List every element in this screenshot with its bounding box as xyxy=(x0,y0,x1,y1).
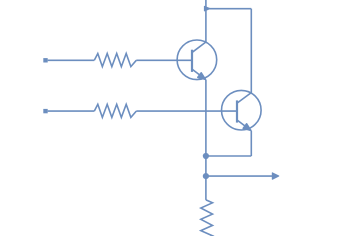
arrow output xyxy=(272,173,279,180)
transistor Q2 xyxy=(222,90,262,130)
wire Q1 emitter down main rail xyxy=(205,80,207,200)
resistor R1 xyxy=(94,54,136,67)
wire Q2 emitter down xyxy=(250,131,252,156)
junction dot B xyxy=(203,173,209,179)
resistor R2 xyxy=(94,104,136,117)
input terminal J2 xyxy=(43,109,47,113)
resistor R3 xyxy=(201,200,213,240)
input terminal J1 xyxy=(43,58,47,62)
wire Q1 collector rail xyxy=(205,0,207,42)
junction dot A xyxy=(203,153,209,159)
wire J1 to R1 xyxy=(48,59,95,61)
wire Q2 emitter to rail xyxy=(206,155,251,157)
arrow on top bus xyxy=(204,6,210,11)
wire R2 to Q2 base xyxy=(136,110,237,112)
wire top bus xyxy=(206,8,251,10)
wire J2 to R2 xyxy=(48,110,95,112)
wire R1 to Q1 base xyxy=(136,59,192,61)
transistor Q1 xyxy=(177,40,217,80)
wire output xyxy=(206,175,272,177)
wire right vertical to Q2 collector xyxy=(250,9,252,93)
